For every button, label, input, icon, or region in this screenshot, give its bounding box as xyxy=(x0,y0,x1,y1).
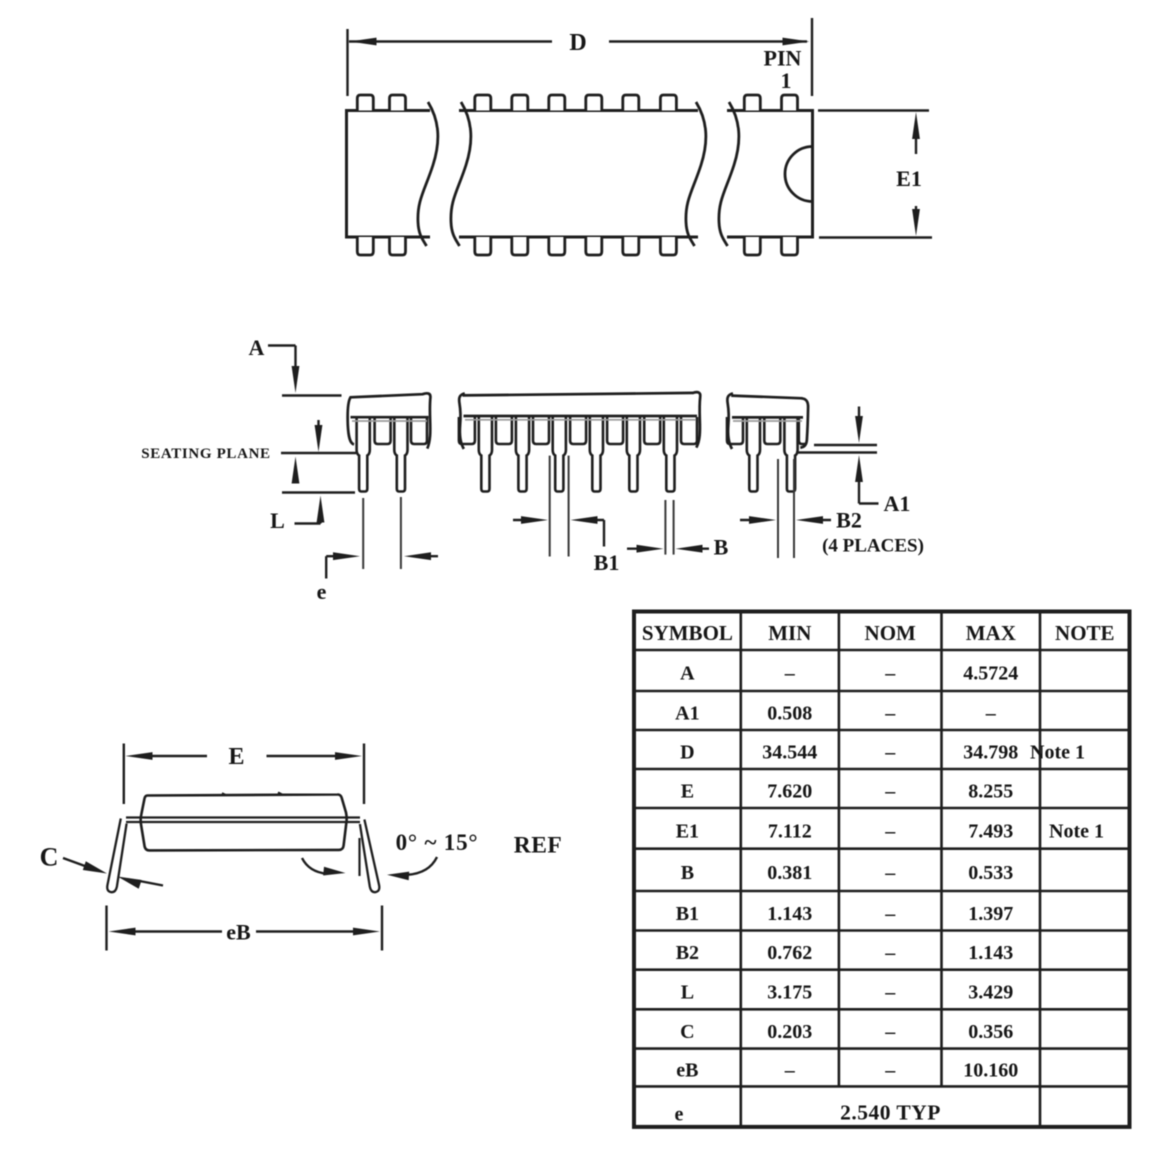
svg-text:–: – xyxy=(884,781,896,803)
svg-text:7.493: 7.493 xyxy=(968,820,1013,842)
svg-text:B1: B1 xyxy=(676,903,699,925)
dimension table xyxy=(634,612,1130,1127)
svg-text:–: – xyxy=(784,1060,796,1082)
svg-text:B2: B2 xyxy=(676,942,699,964)
pin-1 end orientation notch (semicircle) xyxy=(785,147,813,202)
svg-text:B: B xyxy=(681,862,694,884)
dimension B1: extension lines, arrows, label xyxy=(513,456,619,575)
svg-text:–: – xyxy=(884,742,896,764)
svg-text:E: E xyxy=(228,744,244,770)
svg-text:1: 1 xyxy=(781,68,792,93)
dimension eB: extension lines, arrows, label xyxy=(107,906,383,951)
svg-text:D: D xyxy=(569,30,586,56)
svg-text:Note 1: Note 1 xyxy=(1030,742,1085,764)
svg-text:1.143: 1.143 xyxy=(767,903,812,925)
svg-text:–: – xyxy=(884,862,896,884)
svg-text:Note 1: Note 1 xyxy=(1049,820,1104,842)
svg-text:e: e xyxy=(675,1104,684,1126)
svg-text:–: – xyxy=(884,903,896,925)
svg-text:–: – xyxy=(884,1060,896,1082)
end view: dimension E extension lines, arrows, label xyxy=(124,744,364,805)
end view leads (left and right) xyxy=(107,819,379,893)
svg-text:MAX: MAX xyxy=(966,621,1016,645)
svg-text:10.160: 10.160 xyxy=(963,1060,1018,1082)
svg-text:7.112: 7.112 xyxy=(768,820,812,842)
svg-text:SEATING PLANE: SEATING PLANE xyxy=(141,446,270,462)
side view body segment 3 (right) with pins xyxy=(727,393,808,491)
IC top-view pins (leads) top and bottom rows xyxy=(357,95,797,255)
dimension A: label, leader, arrow to package top reference line xyxy=(249,335,342,396)
svg-text:C: C xyxy=(680,1021,694,1043)
svg-text:L: L xyxy=(681,982,694,1004)
svg-text:0.533: 0.533 xyxy=(968,862,1013,884)
svg-text:1.143: 1.143 xyxy=(968,942,1013,964)
dimension B2: extension lines, arrows, label, (4 PLACES) note xyxy=(740,459,924,558)
svg-text:A1: A1 xyxy=(884,491,911,516)
svg-text:–: – xyxy=(884,1021,896,1043)
svg-text:4.5724: 4.5724 xyxy=(963,663,1018,685)
svg-text:eB: eB xyxy=(676,1060,698,1082)
svg-text:NOTE: NOTE xyxy=(1055,621,1115,645)
IC package top view: body outline xyxy=(347,111,813,238)
svg-text:A1: A1 xyxy=(675,703,699,725)
svg-text:–: – xyxy=(985,703,997,725)
svg-text:0.356: 0.356 xyxy=(968,1021,1013,1043)
svg-text:–: – xyxy=(884,820,896,842)
svg-text:(4 PLACES): (4 PLACES) xyxy=(822,536,924,557)
svg-text:0° ~ 15°: 0° ~ 15° xyxy=(396,830,479,855)
svg-text:D: D xyxy=(680,742,694,764)
svg-text:1.397: 1.397 xyxy=(968,903,1013,925)
svg-text:–: – xyxy=(884,942,896,964)
svg-text:–: – xyxy=(884,663,896,685)
svg-text:2.540 TYP: 2.540 TYP xyxy=(840,1101,941,1125)
svg-text:E: E xyxy=(681,781,694,803)
svg-text:B2: B2 xyxy=(836,508,862,533)
break lines (shortened body) in top view xyxy=(418,100,739,247)
svg-text:0.762: 0.762 xyxy=(767,942,812,964)
svg-text:0.203: 0.203 xyxy=(767,1021,812,1043)
lead angle arcs and 0-15 degree REF labels xyxy=(302,830,562,880)
svg-text:–: – xyxy=(884,703,896,725)
svg-text:–: – xyxy=(884,982,896,1004)
dimension e: extension lines, arrows, label xyxy=(317,497,438,604)
svg-text:A: A xyxy=(680,663,695,685)
dimension A1: seating plane double line, arrows, label xyxy=(796,407,910,517)
side view body segment 1 (left) with pins xyxy=(348,393,431,491)
side view body segment 2 (middle) with pins xyxy=(459,392,701,491)
svg-text:A: A xyxy=(249,335,265,360)
svg-text:NOM: NOM xyxy=(865,621,917,645)
svg-text:–: – xyxy=(784,663,796,685)
svg-text:eB: eB xyxy=(226,920,251,945)
svg-text:3.175: 3.175 xyxy=(767,982,812,1004)
svg-text:E1: E1 xyxy=(896,166,922,191)
svg-text:B: B xyxy=(714,535,729,560)
svg-text:PIN: PIN xyxy=(764,46,802,71)
svg-text:MIN: MIN xyxy=(768,621,811,645)
svg-text:E1: E1 xyxy=(676,820,699,842)
svg-text:B1: B1 xyxy=(594,550,620,575)
dimension C: label and opposing arrows at lead thickness xyxy=(40,843,163,889)
end view package body xyxy=(126,792,360,850)
svg-text:34.798: 34.798 xyxy=(963,742,1018,764)
svg-text:7.620: 7.620 xyxy=(767,781,812,803)
dimension D: extension lines, dimension line, arrowheads, label xyxy=(348,18,813,96)
svg-text:L: L xyxy=(270,508,285,533)
dimension L: label and leader arrow xyxy=(270,496,324,534)
PIN 1 label xyxy=(764,46,802,94)
svg-text:C: C xyxy=(40,843,59,872)
svg-text:REF: REF xyxy=(514,833,563,859)
svg-text:0.381: 0.381 xyxy=(767,862,812,884)
seating plane: label, reference lines, arrows xyxy=(141,420,356,493)
dimension B: extension lines, arrows, label xyxy=(627,500,729,560)
svg-text:0.508: 0.508 xyxy=(767,703,812,725)
svg-text:3.429: 3.429 xyxy=(968,982,1013,1004)
svg-text:34.544: 34.544 xyxy=(762,742,817,764)
svg-text:e: e xyxy=(317,579,327,604)
dimension E1: extension lines, arrows, label xyxy=(818,111,932,238)
svg-text:SYMBOL: SYMBOL xyxy=(642,621,733,645)
svg-text:8.255: 8.255 xyxy=(968,781,1013,803)
